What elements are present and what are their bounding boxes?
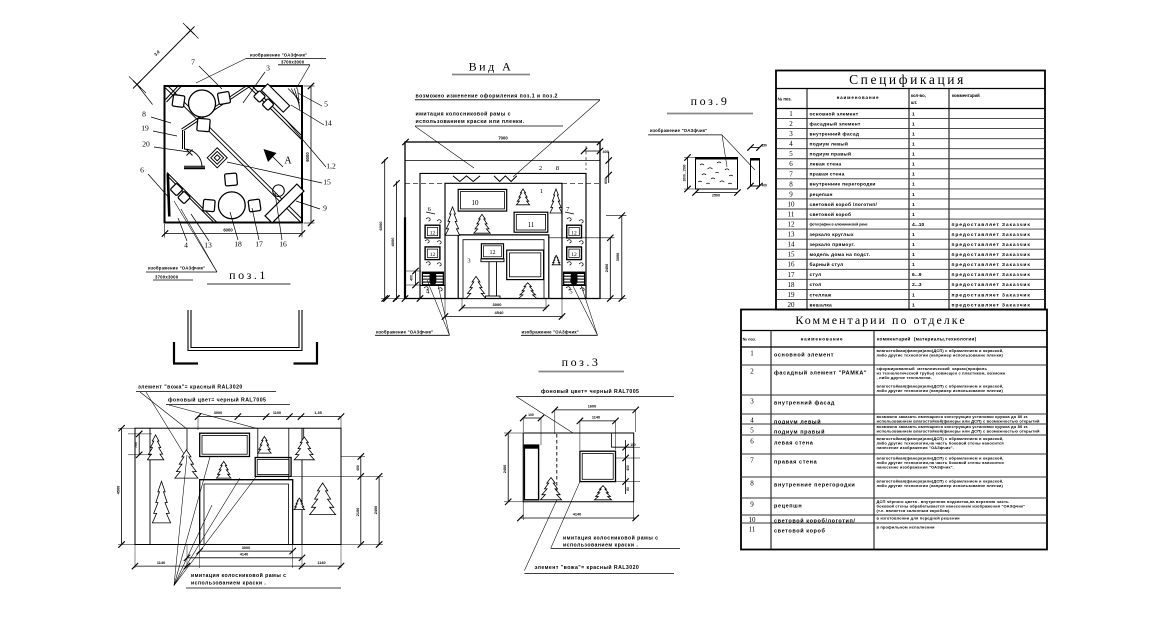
svg-text:3000: 3000 — [616, 253, 620, 261]
comments table frame — [741, 310, 1047, 550]
spec row 17 — [776, 268, 1045, 270]
dim bottom 4540 — [445, 316, 562, 318]
specification table frame — [776, 71, 1045, 310]
round table bottom — [218, 192, 245, 219]
svg-text:8: 8 — [556, 165, 559, 172]
svg-text:1140: 1140 — [592, 416, 600, 420]
tree bottom right — [519, 283, 537, 299]
column hatch squiggles — [426, 218, 430, 221]
svg-text:световой короб /логотип/: световой короб /логотип/ — [810, 201, 878, 208]
svg-text:Спецификация: Спецификация — [849, 72, 966, 87]
svg-text:12: 12 — [490, 250, 496, 256]
dim 400 top right — [584, 150, 600, 152]
svg-text:400: 400 — [410, 275, 414, 281]
svg-text:1: 1 — [912, 121, 915, 127]
svg-text:4: 4 — [184, 241, 188, 250]
spec row 9 — [776, 188, 1045, 190]
svg-text:4: 4 — [750, 417, 754, 425]
svg-text:6: 6 — [140, 166, 144, 175]
svg-text:1: 1 — [540, 188, 543, 195]
anti-diagonal wall top-left — [184, 87, 250, 131]
spec row 13 — [776, 228, 1045, 230]
svg-text:1: 1 — [912, 292, 915, 298]
svg-text:16: 16 — [279, 240, 287, 249]
frame 12 on stand — [481, 244, 503, 259]
comment row 3 — [741, 394, 1047, 396]
svg-text:400: 400 — [626, 465, 630, 471]
svg-text:левая стена: левая стена — [774, 441, 814, 447]
svg-text:фасадный элемент "РАМКА": фасадный элемент "РАМКА" — [774, 370, 867, 377]
dim top chain — [198, 416, 341, 418]
spec row 6 — [776, 158, 1045, 160]
dim right 2400 — [378, 476, 380, 544]
svg-text:1: 1 — [912, 111, 915, 117]
elevation outer rect — [135, 428, 341, 544]
tree left tall — [445, 207, 459, 235]
dim bottom 3000 — [462, 307, 546, 309]
level line — [405, 160, 600, 162]
svg-text:1: 1 — [912, 182, 915, 188]
svg-text:зеркало круглых: зеркало круглых — [810, 233, 854, 238]
chair TL bottom — [197, 118, 211, 132]
svg-text:возможно изменение оформления: возможно изменение оформления поз.1 и по… — [416, 93, 558, 100]
svg-text:20: 20 — [788, 301, 796, 309]
tree center — [474, 214, 490, 233]
dark door — [524, 445, 538, 500]
svg-text:№ поз.: № поз. — [743, 337, 756, 342]
spec row 8 — [776, 178, 1045, 180]
svg-text:2: 2 — [789, 120, 793, 128]
tree near door — [540, 478, 561, 500]
svg-text:1: 1 — [912, 232, 915, 238]
svg-text:световой короб: световой короб — [810, 211, 852, 218]
dim 400 right bottom — [747, 183, 753, 189]
svg-text:3700х3000: 3700х3000 — [155, 274, 179, 279]
dash level left — [405, 182, 445, 184]
svg-text:внутренние перегородки: внутренние перегородки — [810, 183, 876, 188]
texture marks — [700, 164, 704, 165]
svg-text:3700х3000: 3700х3000 — [281, 59, 305, 64]
svg-text:комментарий: комментарий — [952, 93, 980, 98]
panel front view — [696, 158, 738, 190]
spec row 12 — [776, 218, 1045, 220]
svg-text:3: 3 — [266, 64, 270, 73]
svg-text:400: 400 — [762, 184, 768, 188]
comment row 11 — [741, 522, 1047, 524]
comment row 8 — [741, 476, 1047, 478]
chair B right — [248, 199, 261, 212]
svg-text:400: 400 — [603, 150, 609, 154]
svg-text:1100: 1100 — [273, 411, 281, 415]
svg-text:10: 10 — [788, 200, 796, 208]
dim bottom 4140 — [187, 557, 302, 559]
svg-text:1: 1 — [912, 242, 915, 248]
svg-text:4140: 4140 — [240, 553, 248, 557]
svg-text:1: 1 — [912, 131, 915, 137]
chair TR a — [262, 98, 274, 110]
svg-text:предоставляет Заказчик: предоставляет Заказчик — [952, 222, 1031, 228]
svg-text:2100: 2100 — [356, 508, 360, 516]
U channel profile section — [188, 310, 302, 351]
svg-text:изображение "ОАЗфчик": изображение "ОАЗфчик" — [250, 53, 307, 58]
frame 11 — [514, 212, 548, 232]
zigzag marks — [453, 176, 480, 182]
left corner bracket — [173, 342, 175, 364]
spec row 3 — [776, 128, 1045, 130]
dim 7000 top — [402, 139, 408, 145]
leaders from notes — [140, 392, 186, 429]
dim right 400 2100 — [360, 457, 362, 545]
svg-text:2400: 2400 — [503, 465, 507, 473]
svg-text:1: 1 — [912, 212, 915, 218]
svg-text:наименование: наименование — [837, 95, 880, 100]
comment row 7 — [741, 453, 1047, 455]
opening — [200, 480, 293, 545]
svg-text:изображение "ОАЗфчик": изображение "ОАЗфчик" — [376, 329, 433, 334]
svg-text:12: 12 — [430, 252, 436, 258]
svg-text:имитация колосниковой рамы с: имитация колосниковой рамы с — [191, 572, 286, 579]
svg-text:1: 1 — [912, 192, 915, 198]
svg-text:нанесение изображения "ОАЗфчик: нанесение изображения "ОАЗфчик". — [877, 445, 954, 450]
svg-text:10: 10 — [472, 199, 480, 207]
svg-text:А: А — [284, 156, 292, 167]
svg-text:зеркало прямоуг.: зеркало прямоуг. — [810, 243, 856, 248]
main rect — [523, 433, 634, 502]
svg-text:13: 13 — [788, 231, 796, 239]
svg-text:предоставляет Заказчик: предоставляет Заказчик — [952, 242, 1031, 248]
door arc — [184, 149, 202, 167]
svg-text:имитация колосниковой рамы с: имитация колосниковой рамы с — [416, 111, 511, 118]
dim left 4500 — [121, 428, 123, 544]
svg-text:700: 700 — [134, 442, 138, 448]
svg-text:12: 12 — [571, 252, 577, 258]
svg-text:модель дома на подст.: модель дома на подст. — [810, 253, 871, 258]
dim 400 bottom left cabinet — [415, 271, 417, 285]
reception desk rotated — [265, 184, 304, 223]
chair B top — [224, 173, 237, 186]
svg-text:4500: 4500 — [117, 486, 121, 494]
level right segment — [562, 182, 600, 184]
svg-text:6000: 6000 — [305, 152, 310, 162]
svg-text:внутренний фасад: внутренний фасад — [774, 400, 835, 407]
frame 10 — [458, 189, 507, 211]
svg-text:7000: 7000 — [498, 136, 508, 141]
svg-text:1600: 1600 — [588, 405, 596, 409]
svg-text:2: 2 — [539, 165, 542, 172]
svg-text:поз.3: поз.3 — [562, 355, 601, 369]
svg-text:либо другие технологии (наприм: либо другие технологии (например использ… — [877, 483, 1004, 488]
svg-text:левая стена: левая стена — [810, 163, 842, 168]
svg-text:8: 8 — [750, 480, 754, 488]
showcase A — [200, 433, 250, 456]
spec row 10 — [776, 198, 1045, 200]
svg-text:предоставляет Заказчик: предоставляет Заказчик — [952, 252, 1031, 258]
svg-text:№ поз.: № поз. — [778, 97, 792, 102]
dimension bottom 6000 — [165, 233, 302, 235]
svg-text:фотографии в алюминиевой раме: фотографии в алюминиевой раме — [810, 223, 868, 227]
svg-text:изображение "ОАЗфчик": изображение "ОАЗфчик" — [148, 266, 205, 271]
svg-text:барный стул: барный стул — [810, 261, 844, 268]
svg-text:изображение "ОАЗфчик": изображение "ОАЗфчик" — [650, 128, 707, 133]
chair TL left — [172, 95, 185, 108]
svg-text:1: 1 — [912, 172, 915, 178]
svg-text:световой короб: световой короб — [774, 528, 825, 535]
svg-text:100: 100 — [528, 413, 534, 417]
leader from note 3 — [415, 126, 474, 168]
svg-text:Комментарии по отделке: Комментарии по отделке — [795, 313, 966, 327]
svg-text:16: 16 — [788, 261, 796, 269]
comment row 5 — [741, 423, 1047, 425]
svg-text:использованием краски .: использованием краски . — [191, 581, 266, 587]
dim bottom 1140 full — [135, 565, 341, 567]
svg-text:11: 11 — [528, 221, 535, 229]
svg-text:подиум правый: подиум правый — [810, 151, 852, 158]
wall vertical segment — [182, 130, 184, 149]
leader lines — [722, 135, 727, 167]
svg-text:15: 15 — [323, 178, 331, 187]
svg-text:2400: 2400 — [605, 264, 609, 272]
bottom edge ticks — [383, 295, 389, 301]
panel side view — [751, 159, 760, 187]
dim left vertical — [687, 158, 689, 190]
svg-text:использованием влагостойкой(фа: использованием влагостойкой(фанеры или Д… — [877, 428, 1040, 433]
showcase B — [255, 458, 291, 477]
leaders — [524, 500, 556, 571]
svg-text:предоставляет Заказчик: предоставляет Заказчик — [952, 232, 1031, 238]
svg-text:3000: 3000 — [242, 546, 250, 550]
frame second — [420, 173, 586, 298]
svg-text:6: 6 — [789, 160, 793, 168]
comment row 2 — [741, 364, 1047, 366]
spec row 14 — [776, 238, 1045, 240]
inner room — [445, 183, 562, 298]
spec row 18 — [776, 278, 1045, 280]
svg-text:предоставляет Заказчик: предоставляет Заказчик — [952, 272, 1031, 278]
svg-text:18: 18 — [234, 240, 242, 249]
svg-text:фоновый цвет= черный RAL7005: фоновый цвет= черный RAL7005 — [541, 388, 639, 395]
svg-text:4540: 4540 — [495, 310, 505, 315]
svg-text:изображение "ОАЗфчик": изображение "ОАЗфчик" — [522, 329, 579, 334]
svg-text:1,35: 1,35 — [314, 411, 321, 415]
svg-text:поз.9: поз.9 — [691, 94, 730, 108]
showcase — [580, 451, 616, 481]
spec row 2 — [776, 118, 1045, 120]
svg-text:1140: 1140 — [157, 561, 165, 565]
svg-text:5: 5 — [750, 427, 754, 435]
svg-text:1: 1 — [912, 162, 915, 168]
svg-text:9: 9 — [789, 190, 793, 198]
svg-text:1140: 1140 — [317, 561, 325, 565]
corner hatch top-right — [288, 89, 300, 101]
svg-text:фасадный элемент: фасадный элемент — [810, 120, 861, 127]
svg-text:основной элемент: основной элемент — [774, 352, 834, 359]
svg-text:шт.: шт. — [911, 100, 917, 105]
dim right small — [625, 440, 627, 494]
tree right — [594, 486, 611, 500]
chair TR b — [253, 90, 265, 102]
svg-text:3000: 3000 — [493, 302, 503, 307]
svg-text:4...10: 4...10 — [912, 222, 925, 228]
tree small right — [552, 255, 560, 264]
svg-text:3: 3 — [467, 257, 470, 264]
dim bottom 4140 — [520, 517, 635, 519]
svg-text:1: 1 — [912, 302, 915, 308]
dim bottom — [696, 192, 738, 194]
svg-text:использованием краски или плен: использованием краски или пленки. — [416, 119, 525, 125]
chair B left — [203, 199, 215, 211]
svg-text:элемент "вожа"= красный RAL302: элемент "вожа"= красный RAL3020 — [535, 564, 640, 571]
X mark door — [187, 150, 193, 156]
dim 1600 top — [555, 409, 636, 411]
dim right 3000 — [621, 216, 623, 300]
svg-text:стол: стол — [810, 283, 822, 288]
svg-text:4140: 4140 — [573, 513, 581, 517]
spec row 5 — [776, 148, 1045, 150]
svg-text:6: 6 — [750, 438, 754, 446]
chair TL right — [217, 91, 230, 104]
center diamond display — [207, 148, 227, 168]
comment row 10 — [741, 514, 1047, 516]
svg-text:подиум правый: подиум правый — [774, 429, 825, 436]
svg-text:в профильном исполнении: в профильном исполнении — [877, 525, 936, 530]
inner verticals — [149, 428, 151, 544]
left cabinet — [422, 272, 443, 285]
svg-text:использованием краски .: использованием краски . — [563, 543, 638, 549]
dim left 700 — [138, 434, 140, 455]
dim left 4000 — [396, 181, 398, 300]
svg-text:11: 11 — [749, 526, 756, 534]
svg-text:предоставляет Заказчик: предоставляет Заказчик — [952, 302, 1031, 308]
svg-text:использованием влагостойкой(фа: использованием влагостойкой(фанеры или Д… — [877, 418, 1040, 423]
tree top center — [516, 189, 529, 205]
svg-text:предоставляет Заказчик: предоставляет Заказчик — [952, 262, 1031, 268]
svg-text:9: 9 — [323, 204, 327, 213]
svg-text:основной элемент: основной элемент — [810, 110, 859, 117]
spec row 4 — [776, 138, 1045, 140]
svg-text:стеллаж: стеллаж — [810, 293, 832, 298]
svg-text:1: 1 — [912, 262, 915, 268]
fan leaders — [174, 455, 187, 586]
svg-text:19: 19 — [141, 124, 149, 133]
svg-text:5: 5 — [324, 100, 328, 109]
svg-text:2400: 2400 — [374, 506, 378, 514]
comments header — [741, 346, 1047, 348]
comment row 6 — [741, 434, 1047, 436]
svg-text:1,2: 1,2 — [326, 162, 336, 171]
svg-text:поз.1: поз.1 — [229, 268, 268, 282]
spec row 11 — [776, 208, 1045, 210]
svg-text:элемент "вожа"= красный RAL302: элемент "вожа"= красный RAL3020 — [138, 384, 243, 391]
dim 100 left — [523, 417, 541, 419]
svg-text:6...9: 6...9 — [912, 272, 922, 278]
svg-text:1: 1 — [912, 252, 915, 258]
svg-text:15: 15 — [788, 251, 796, 259]
svg-text:13: 13 — [204, 241, 212, 250]
svg-text:имитация колосниковой рамы с: имитация колосниковой рамы с — [563, 535, 658, 542]
svg-text:3: 3 — [750, 398, 754, 406]
svg-text:1: 1 — [789, 110, 793, 118]
svg-text:1: 1 — [912, 202, 915, 208]
svg-text:стул: стул — [810, 273, 822, 278]
direction arrow — [264, 149, 277, 162]
svg-text:2: 2 — [750, 368, 754, 376]
svg-text:9: 9 — [750, 501, 754, 509]
svg-text:12: 12 — [788, 221, 796, 229]
leader from note 1 — [513, 100, 600, 177]
spec row 19 — [776, 288, 1045, 290]
svg-text:100: 100 — [630, 443, 636, 447]
dim 600 right small — [608, 152, 610, 183]
svg-text:7: 7 — [191, 58, 195, 67]
right corner bracket — [316, 342, 318, 364]
trees — [147, 435, 163, 460]
svg-text:8: 8 — [789, 180, 793, 188]
svg-text:4: 4 — [789, 140, 793, 148]
svg-text:8: 8 — [142, 110, 146, 119]
lower opening room 3 — [458, 235, 549, 299]
corner chamfer top-left — [167, 87, 182, 103]
svg-text:1: 1 — [750, 350, 754, 358]
dim 150 right top — [751, 147, 760, 149]
svg-text:внутренний фасад: внутренний фасад — [810, 130, 860, 137]
svg-text:80: 80 — [626, 487, 630, 491]
dim left 6000 — [384, 159, 386, 300]
corner step — [610, 433, 612, 447]
svg-text:предоставляет Заказчик: предоставляет Заказчик — [952, 292, 1031, 298]
door wall — [184, 165, 205, 167]
svg-text:7: 7 — [789, 170, 793, 178]
svg-text:600: 600 — [604, 178, 608, 184]
svg-text:правая стена: правая стена — [774, 460, 818, 466]
svg-text:18: 18 — [788, 281, 796, 289]
tree right — [550, 189, 562, 213]
svg-text:1: 1 — [912, 142, 915, 148]
svg-text:14: 14 — [788, 241, 796, 249]
svg-text:Вид А: Вид А — [469, 60, 514, 74]
dimension right 6000 — [310, 86, 312, 223]
svg-text:либо другие технологии (наприм: либо другие технологии (например использ… — [877, 388, 1004, 393]
svg-text:4000: 4000 — [390, 237, 395, 247]
svg-text:вешалка: вешалка — [810, 303, 833, 308]
svg-text:17: 17 — [788, 271, 796, 279]
svg-text:12: 12 — [430, 230, 436, 236]
desk top-right rotated — [261, 84, 289, 112]
svg-text:нанесение изображения "ОАЗфчик: нанесение изображения "ОАЗфчик". — [877, 464, 954, 469]
svg-text:комментарий (материалы,технол: комментарий (материалы,технологии) — [877, 336, 977, 342]
comment row 9 — [741, 497, 1047, 499]
spec row 15 — [776, 248, 1045, 250]
svg-text:150: 150 — [762, 144, 768, 148]
showcase lower right — [507, 250, 544, 280]
svg-text:либо другие технологии (наприм: либо другие технологии (например использ… — [877, 352, 1004, 357]
main diagonal wall — [166, 88, 301, 222]
thick wall line bottom-left — [168, 174, 170, 217]
svg-text:1: 1 — [912, 152, 915, 158]
comment row 4 — [741, 413, 1047, 415]
dim 1140 — [580, 420, 616, 422]
svg-text:5: 5 — [789, 150, 793, 158]
svg-text:17: 17 — [255, 240, 263, 249]
small circle stand — [273, 185, 285, 197]
svg-text:подиум левый: подиум левый — [774, 419, 821, 426]
dashed line — [556, 434, 558, 500]
chair BL b — [178, 191, 191, 204]
svg-text:правая стена: правая стена — [810, 173, 845, 178]
corner band bottom-left — [167, 173, 217, 223]
svg-text:подиум левый: подиум левый — [810, 141, 849, 148]
tree bottom left — [466, 276, 486, 298]
svg-text:кол-во,: кол-во, — [911, 93, 926, 98]
